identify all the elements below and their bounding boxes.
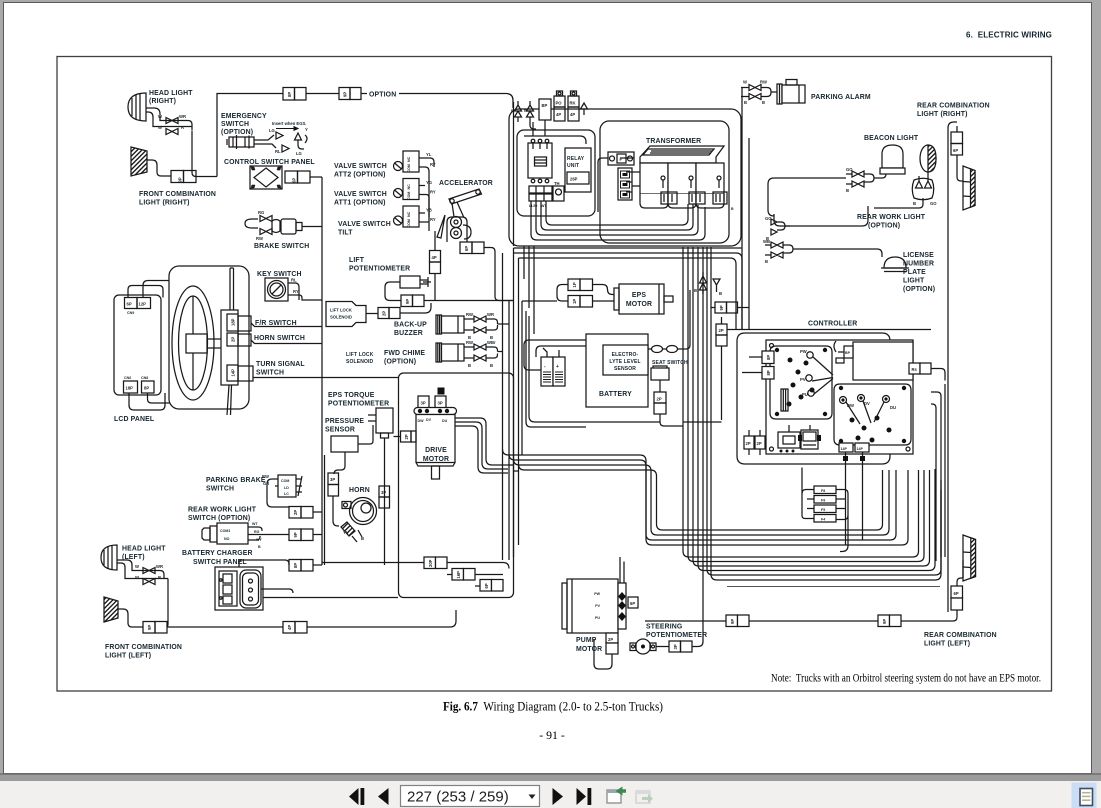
svg-text:W: W: [135, 564, 139, 569]
battery charger panel body: [215, 567, 263, 610]
svg-text:HORN SWITCH: HORN SWITCH: [254, 335, 305, 342]
transformer compartment box: [600, 121, 729, 243]
wire horn switch to center: [251, 340, 322, 344]
svg-text:CN8: CN8: [141, 376, 148, 380]
svg-text:8P: 8P: [766, 370, 771, 375]
EPS connector loop wire: [522, 285, 568, 302]
controller enclosure: [737, 333, 890, 464]
fuse F4: [814, 515, 836, 523]
emergency switch body: [229, 137, 254, 147]
svg-text:DU: DU: [890, 405, 896, 410]
svg-text:2P: 2P: [293, 510, 298, 515]
dropdown arrow: [529, 795, 536, 800]
connector 9P mid right: [715, 302, 727, 313]
svg-text:+: +: [556, 364, 559, 370]
svg-text:RK: RK: [570, 101, 576, 106]
first-page button (double left triangles): [349, 788, 364, 805]
svg-text:GO: GO: [765, 216, 772, 221]
transformer body upper row: [640, 163, 668, 194]
svg-text:TRANSFORMER: TRANSFORMER: [646, 138, 701, 145]
battery box: [586, 334, 648, 407]
control switch panel body: [250, 166, 282, 189]
svg-text:9P: 9P: [882, 619, 887, 624]
drive motor phase wires to bundle: [455, 418, 508, 473]
svg-text:Fig. 6.7 Wiring Diagram (2.0-: Fig. 6.7 Wiring Diagram (2.0- to 2.5-ton…: [443, 700, 663, 714]
controller top rail wire: [727, 329, 931, 331]
drive phase bundle joiners: [508, 465, 519, 471]
connector 9P bottom a: [726, 615, 738, 627]
svg-text:LD: LD: [284, 486, 289, 490]
svg-text:8P: 8P: [287, 92, 292, 97]
transformer top slab: [640, 146, 724, 163]
svg-text:LIGHT: LIGHT: [903, 278, 925, 285]
connector 3P horn: [379, 486, 390, 497]
svg-text:3P: 3P: [421, 401, 426, 406]
svg-text:3P: 3P: [381, 490, 386, 495]
EPS torque potentiometer body: [376, 408, 393, 433]
pump motor body: [567, 579, 618, 633]
svg-text:F9: F9: [821, 499, 825, 503]
license arrows WB: [771, 242, 783, 258]
wire bundle nested loop 3: [514, 459, 890, 535]
switch stack body: [221, 310, 238, 385]
rear work light lamp 2: [912, 178, 934, 200]
svg-text:18P: 18P: [231, 318, 236, 326]
license arrows GO: [771, 219, 790, 235]
connector 2P drive motor: [401, 431, 412, 442]
svg-text:RW: RW: [466, 340, 473, 345]
svg-text:WBr: WBr: [487, 340, 496, 345]
wire 2P to junction: [400, 303, 431, 313]
svg-text:4P: 4P: [287, 625, 292, 630]
wires exiting harness box bottom: [514, 102, 535, 334]
svg-text:RW: RW: [760, 80, 767, 85]
svg-text:2P: 2P: [757, 441, 762, 446]
rear work light switch body: [202, 528, 210, 540]
bottom long wire: [645, 620, 948, 622]
controller to fuse wires: [802, 468, 848, 552]
svg-text:STEERING: STEERING: [646, 624, 682, 631]
svg-text:B: B: [468, 363, 471, 368]
svg-text:PARKING ALARM: PARKING ALARM: [811, 94, 871, 101]
svg-text:9P: 9P: [178, 177, 183, 182]
controller side wires down: [931, 392, 941, 561]
EPS motor connector 1P upper: [568, 279, 580, 291]
svg-text:SWITCH: SWITCH: [256, 370, 284, 377]
relay unit box: [565, 148, 591, 192]
steering column housing: [169, 266, 249, 409]
svg-text:BACK-UP: BACK-UP: [394, 322, 427, 329]
svg-text:8P: 8P: [766, 355, 771, 360]
svg-text:PARKING BRAKE: PARKING BRAKE: [206, 477, 266, 484]
wire F/R to center: [251, 323, 322, 327]
fuse F9: [814, 496, 836, 504]
rear combination light (left) lamp: [963, 535, 976, 581]
fuse block row 2: [529, 194, 552, 201]
svg-text:LIGHT (RIGHT): LIGHT (RIGHT): [139, 200, 190, 207]
svg-text:RG: RG: [258, 210, 264, 215]
connector 9P lift potentiometer: [401, 295, 413, 307]
svg-text:ATT2 (OPTION): ATT2 (OPTION): [334, 172, 386, 179]
svg-text:CONTROL SWITCH PANEL: CONTROL SWITCH PANEL: [224, 159, 315, 166]
svg-text:COM: COM: [407, 219, 411, 227]
wires LCD to column: [128, 281, 169, 298]
svg-text:DV: DV: [426, 418, 432, 422]
svg-text:RY: RY: [430, 190, 436, 195]
horn body: [350, 498, 377, 525]
fwd chime body: [436, 343, 442, 362]
drive motor body: [416, 415, 455, 463]
svg-text:6P: 6P: [292, 178, 297, 183]
connector 2P parking brake: [289, 507, 301, 519]
svg-text:Note: Trucks with an Orbitrol: Note: Trucks with an Orbitrol steering s…: [771, 673, 1041, 685]
diode pair R: [527, 101, 537, 129]
svg-text:BATTERY: BATTERY: [599, 391, 632, 398]
svg-text:REAR WORK LIGHT: REAR WORK LIGHT: [188, 507, 257, 514]
svg-text:SWITCH: SWITCH: [221, 121, 249, 128]
svg-text:W: W: [135, 575, 139, 580]
svg-text:8P: 8P: [144, 386, 149, 391]
fuse F5: [814, 505, 836, 513]
parking brake switch body: [278, 475, 296, 497]
wires 1P to EPS motor: [593, 285, 615, 302]
svg-text:2P: 2P: [231, 337, 236, 342]
stair wires: [322, 563, 509, 587]
svg-text:2P: 2P: [657, 397, 662, 402]
svg-text:WB: WB: [763, 239, 770, 244]
fuse block row 1: [529, 186, 552, 193]
svg-text:WT: WT: [252, 522, 258, 526]
connector 4P lift circuit: [430, 251, 441, 263]
svg-text:PRESSURE: PRESSURE: [325, 418, 364, 425]
accelerator sensor body: [447, 217, 467, 242]
svg-text:9P: 9P: [719, 305, 724, 310]
svg-text:1P: 1P: [572, 299, 577, 304]
forward-history icon (disabled): [636, 791, 653, 803]
svg-text:LIFT LOCK: LIFT LOCK: [330, 308, 352, 313]
steering potentiometer body: [636, 639, 651, 654]
svg-text:COM1: COM1: [220, 529, 230, 533]
power PCB (left): [770, 346, 832, 419]
wires rear combination left: [948, 560, 963, 621]
next-page button (right triangle): [553, 788, 564, 805]
fuse BP: [539, 99, 551, 120]
svg-text:MOTOR: MOTOR: [576, 646, 602, 653]
svg-text:RY: RY: [293, 289, 299, 294]
svg-text:9P: 9P: [343, 92, 348, 97]
svg-text:3P: 3P: [330, 477, 335, 482]
svg-text:B: B: [158, 575, 161, 580]
svg-text:FRONT COMBINATION: FRONT COMBINATION: [139, 191, 216, 198]
svg-text:14P: 14P: [231, 369, 236, 377]
svg-text:SENSOR: SENSOR: [614, 366, 636, 372]
connector 9P front combination right: [171, 171, 184, 183]
connector 8P battery charger: [289, 560, 301, 572]
transformer pin group 2: [689, 192, 705, 204]
svg-text:MOTOR: MOTOR: [423, 456, 449, 463]
svg-text:20P: 20P: [428, 559, 433, 567]
steering pot riser: [702, 247, 704, 621]
svg-text:WR: WR: [487, 312, 494, 317]
svg-text:14P: 14P: [857, 447, 864, 451]
front combination light (left) lamp: [104, 597, 118, 622]
wire to 3P connector: [334, 452, 345, 474]
diode pair B: [515, 101, 522, 122]
fuse F with terminals: [608, 152, 634, 165]
chime wires RW WBr: [464, 347, 503, 358]
svg-text:DU: DU: [442, 419, 448, 423]
fuse feed wires: [802, 490, 848, 520]
svg-text:ACCELERATOR: ACCELERATOR: [439, 180, 493, 187]
brake switch arrows RW: [260, 229, 272, 235]
svg-text:TILT: TILT: [338, 230, 353, 237]
svg-text:EMERGENCY: EMERGENCY: [221, 113, 267, 120]
svg-text:DRIVE: DRIVE: [425, 447, 447, 454]
battery plug wires: [524, 340, 586, 370]
wire W-WR from head light (right): [146, 108, 192, 131]
steering pot wire: [656, 621, 703, 647]
svg-text:UNIT: UNIT: [567, 163, 579, 169]
horn switch connector 2P: [227, 333, 238, 346]
svg-text:-: -: [544, 364, 546, 370]
parking alarm wires W RW: [741, 88, 777, 97]
toolbar background: [0, 781, 1101, 808]
fuse F8: [814, 486, 836, 494]
svg-text:12P: 12P: [139, 302, 147, 307]
connector 9P front combination left: [143, 622, 155, 634]
svg-text:Y: Y: [305, 127, 308, 132]
svg-text:RW: RW: [256, 236, 263, 241]
svg-text:14P: 14P: [841, 447, 848, 451]
bus vertical at x322: [321, 177, 323, 565]
EPS motor connector 1P lower: [568, 296, 580, 308]
wire bundle nested loop 4: [519, 464, 883, 530]
connector 9P bottom b: [878, 615, 890, 627]
svg-text:(OPTION): (OPTION): [221, 129, 253, 136]
connector 8P option row left: [283, 88, 295, 101]
LCD connector 12P: [137, 298, 151, 309]
drive motor enclosure loop: [399, 373, 514, 598]
svg-text:16P: 16P: [456, 571, 461, 579]
sidebar toggle button (highlighted): [1072, 783, 1097, 808]
svg-text:F5: F5: [821, 508, 825, 512]
svg-text:F4: F4: [821, 518, 825, 522]
svg-text:2P: 2P: [608, 637, 613, 642]
connector 16P drive: [452, 569, 464, 581]
svg-text:SENSOR: SENSOR: [325, 427, 355, 434]
svg-text:PO: PO: [556, 101, 563, 106]
brake switch loop wire: [245, 219, 258, 228]
svg-text:BATTERY CHARGER: BATTERY CHARGER: [182, 550, 253, 557]
svg-text:HEAD LIGHT: HEAD LIGHT: [149, 90, 193, 97]
fuse links: [648, 348, 652, 350]
svg-text:NC: NC: [407, 211, 411, 217]
svg-text:(OPTION): (OPTION): [868, 223, 900, 230]
svg-text:18P: 18P: [126, 386, 134, 391]
EGS jumper symbol: [295, 133, 305, 149]
beacon light dome: [882, 145, 903, 168]
svg-text:PW: PW: [594, 592, 600, 596]
svg-text:9P: 9P: [147, 625, 152, 630]
svg-text:WR: WR: [179, 114, 186, 119]
turn signal switch connector 14P: [227, 365, 238, 381]
brake switch arrows RG: [260, 216, 272, 222]
svg-text:OPTION: OPTION: [369, 92, 396, 99]
pressure sensor body: [331, 436, 358, 452]
svg-text:B: B: [258, 545, 261, 549]
svg-text:- 91 -: - 91 -: [539, 728, 565, 742]
svg-text:COM: COM: [407, 192, 411, 200]
wire option row: [306, 93, 339, 95]
connector pair arrows on W-WR wire: [166, 118, 178, 124]
wire accelerator to right: [484, 248, 513, 301]
connector 2P lift lock: [378, 308, 389, 319]
svg-text:HEAD LIGHT: HEAD LIGHT: [122, 546, 166, 553]
rear work light loop wire: [768, 172, 928, 226]
svg-text:W: W: [158, 125, 162, 130]
ground triangles B: [700, 272, 707, 294]
svg-text:ATT1 (OPTION): ATT1 (OPTION): [334, 200, 386, 207]
svg-text:POTENTIOMETER: POTENTIOMETER: [349, 266, 410, 273]
svg-text:W: W: [158, 114, 162, 119]
svg-text:4P: 4P: [556, 112, 561, 117]
svg-text:F8: F8: [821, 489, 825, 493]
wire pot down: [384, 438, 386, 565]
connector 8P controller lower: [762, 367, 774, 380]
svg-text:B: B: [731, 207, 734, 211]
svg-text:PLATE: PLATE: [903, 269, 926, 276]
svg-text:RL: RL: [275, 149, 281, 154]
svg-text:EPS: EPS: [632, 292, 646, 299]
svg-text:4P: 4P: [432, 255, 437, 260]
rear work light oval lamp: [920, 145, 936, 172]
beacon arrows GO: [852, 171, 864, 187]
mid harness verticals: [683, 247, 919, 557]
svg-text:2P: 2P: [382, 311, 387, 316]
svg-text:4P: 4P: [570, 112, 575, 117]
connector 4P bottom left: [283, 622, 295, 634]
svg-text:SWITCH (OPTION): SWITCH (OPTION): [188, 515, 250, 522]
svg-text:R: R: [181, 125, 184, 130]
wire 4P vertical: [434, 231, 436, 301]
svg-text:LCD PANEL: LCD PANEL: [114, 416, 154, 423]
svg-text:WR: WR: [156, 564, 163, 569]
F/R switch connector 18P: [227, 314, 238, 331]
seat switch body: [651, 368, 669, 380]
trunk horizontal top rails to right bus: [514, 248, 743, 330]
svg-text:R: R: [524, 109, 527, 113]
harness lines transformer to left: [632, 172, 640, 186]
horn plug: [341, 522, 355, 536]
svg-text:NC: NC: [407, 184, 411, 190]
head light (left) lamp: [101, 545, 117, 570]
key switch wires RL RY: [288, 283, 322, 300]
svg-text:6P: 6P: [954, 591, 959, 596]
svg-text:2P: 2P: [719, 328, 724, 333]
svg-text:LIGHT (RIGHT): LIGHT (RIGHT): [917, 111, 968, 118]
toolbar separator band: [0, 774, 1101, 782]
svg-text:RW: RW: [262, 474, 269, 479]
svg-text:W: W: [743, 80, 747, 85]
svg-text:B: B: [913, 201, 916, 206]
connector 3P steering pot: [669, 641, 681, 652]
connector 2P mid right: [716, 324, 727, 335]
svg-text:RY: RY: [430, 162, 436, 167]
svg-text:LG: LG: [269, 128, 275, 133]
svg-text:3P: 3P: [438, 401, 443, 406]
svg-text:9P: 9P: [293, 532, 298, 537]
connector 2P controller a: [744, 436, 754, 449]
internal harness loop wires: [524, 122, 586, 144]
seat circuit horizontals: [522, 301, 586, 455]
controller base plate: [766, 340, 913, 454]
bus vertical at x324.5: [324, 455, 326, 565]
svg-text:HORN: HORN: [349, 487, 370, 494]
turn signal stalk: [230, 268, 234, 310]
magnetic contactor: [528, 143, 552, 178]
svg-text:B: B: [762, 100, 765, 105]
license wire to lamp: [797, 249, 882, 257]
wire control panel to bus: [310, 176, 322, 178]
svg-text:2P: 2P: [404, 434, 409, 439]
pump motor connector 6P: [628, 597, 638, 608]
license number plate light lamp: [884, 257, 906, 268]
wire node to vertical bus: [196, 94, 283, 177]
svg-text:PV: PV: [800, 377, 806, 382]
wire bundle nested loop 1: [503, 449, 909, 545]
svg-text:Rs: Rs: [912, 367, 918, 372]
svg-text:SOLENOID: SOLENOID: [346, 359, 374, 365]
connector 6P rear combination right: [951, 132, 963, 144]
svg-text:8P: 8P: [293, 563, 298, 568]
svg-text:6. ELECTRIC WIRING: 6. ELECTRIC WIRING: [966, 31, 1052, 40]
svg-text:REAR WORK LIGHT: REAR WORK LIGHT: [857, 214, 926, 221]
rear work light switch wires WT RG WY B: [248, 527, 289, 540]
svg-text:LG: LG: [296, 151, 302, 156]
connector pair option: [339, 88, 350, 100]
svg-text:FRONT COMBINATION: FRONT COMBINATION: [105, 644, 182, 651]
BP fuse controller: [844, 346, 853, 358]
svg-text:CN6: CN6: [124, 376, 131, 380]
svg-text:B: B: [490, 363, 493, 368]
steering wheel: [172, 286, 214, 400]
svg-text:LC: LC: [284, 492, 289, 496]
svg-text:RW: RW: [466, 312, 473, 317]
wire option to top box: [399, 94, 513, 109]
svg-text:LIFT LOCK: LIFT LOCK: [346, 352, 374, 358]
svg-text:6P: 6P: [127, 302, 132, 307]
back-up buzzer body: [436, 315, 442, 334]
connector 14P pair: [839, 443, 853, 452]
pilot relay: [778, 432, 800, 448]
battery plug: [541, 357, 553, 386]
wire W-R from head light (right): [146, 112, 196, 177]
svg-text:B: B: [765, 259, 768, 264]
svg-text:SOLENOID: SOLENOID: [330, 315, 352, 320]
svg-text:RELAY: RELAY: [567, 156, 585, 162]
svg-text:NO: NO: [224, 537, 230, 541]
head light (right) lamp: [128, 93, 146, 121]
svg-text:CN9: CN9: [127, 311, 134, 315]
svg-text:TURN SIGNAL: TURN SIGNAL: [256, 361, 305, 368]
pump terminal wires up: [620, 557, 624, 583]
page number field: [401, 786, 540, 807]
EPS motor body: [619, 284, 664, 314]
rear combination light (right) lamp: [963, 166, 975, 210]
drive PCB (right): [834, 384, 911, 445]
connector RK 4P: [568, 96, 579, 107]
svg-text:RY: RY: [430, 217, 436, 222]
